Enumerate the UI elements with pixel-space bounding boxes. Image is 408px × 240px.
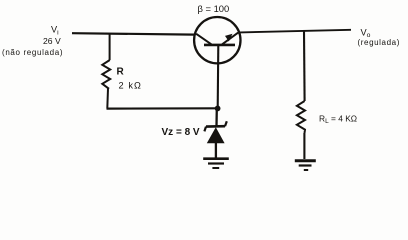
wire: base node rail (R bottom to zener junction): [107, 107, 219, 109]
wire: node B down to zener cathode: [215, 109, 218, 127]
wire: RL branch drop from emitter rail: [303, 31, 306, 101]
ground (under RL): [295, 161, 316, 170]
transistor Q1 (NPN pass transistor): [194, 17, 240, 63]
svg-text:26 V: 26 V: [43, 36, 61, 46]
diode D1 zener (Vz = 8 V): [204, 121, 226, 143]
svg-text:(não regulada): (não regulada): [2, 48, 63, 57]
svg-text:R: R: [117, 67, 125, 78]
svg-text:Vi: Vi: [51, 25, 59, 37]
svg-text:(regulada): (regulada): [358, 38, 400, 47]
svg-text:RL = 4 KΩ: RL = 4 KΩ: [319, 114, 357, 126]
wire: base lead from Q1 down to node B: [217, 45, 220, 108]
wire: input rail Vi to collector: [72, 33, 195, 34]
wire: zener anode to ground: [215, 143, 217, 158]
resistor RL (4 kOhm load): [297, 101, 305, 133]
ground (under zener): [203, 159, 229, 168]
node A: junction of input rail and R branch: [109, 35, 111, 61]
node B: junction dot of base / zener: [215, 106, 221, 112]
resistor R1 (R, 2 kOhm): [102, 60, 110, 89]
wire: R bottom lead down to base node rail: [106, 89, 109, 109]
wire: RL bottom lead to ground: [303, 133, 305, 159]
svg-text:β = 100: β = 100: [198, 3, 230, 14]
svg-text:Vz = 8 V: Vz = 8 V: [162, 127, 200, 138]
svg-text:2 kΩ: 2 kΩ: [119, 81, 143, 91]
wire: emitter rail to Vo: [240, 30, 351, 33]
